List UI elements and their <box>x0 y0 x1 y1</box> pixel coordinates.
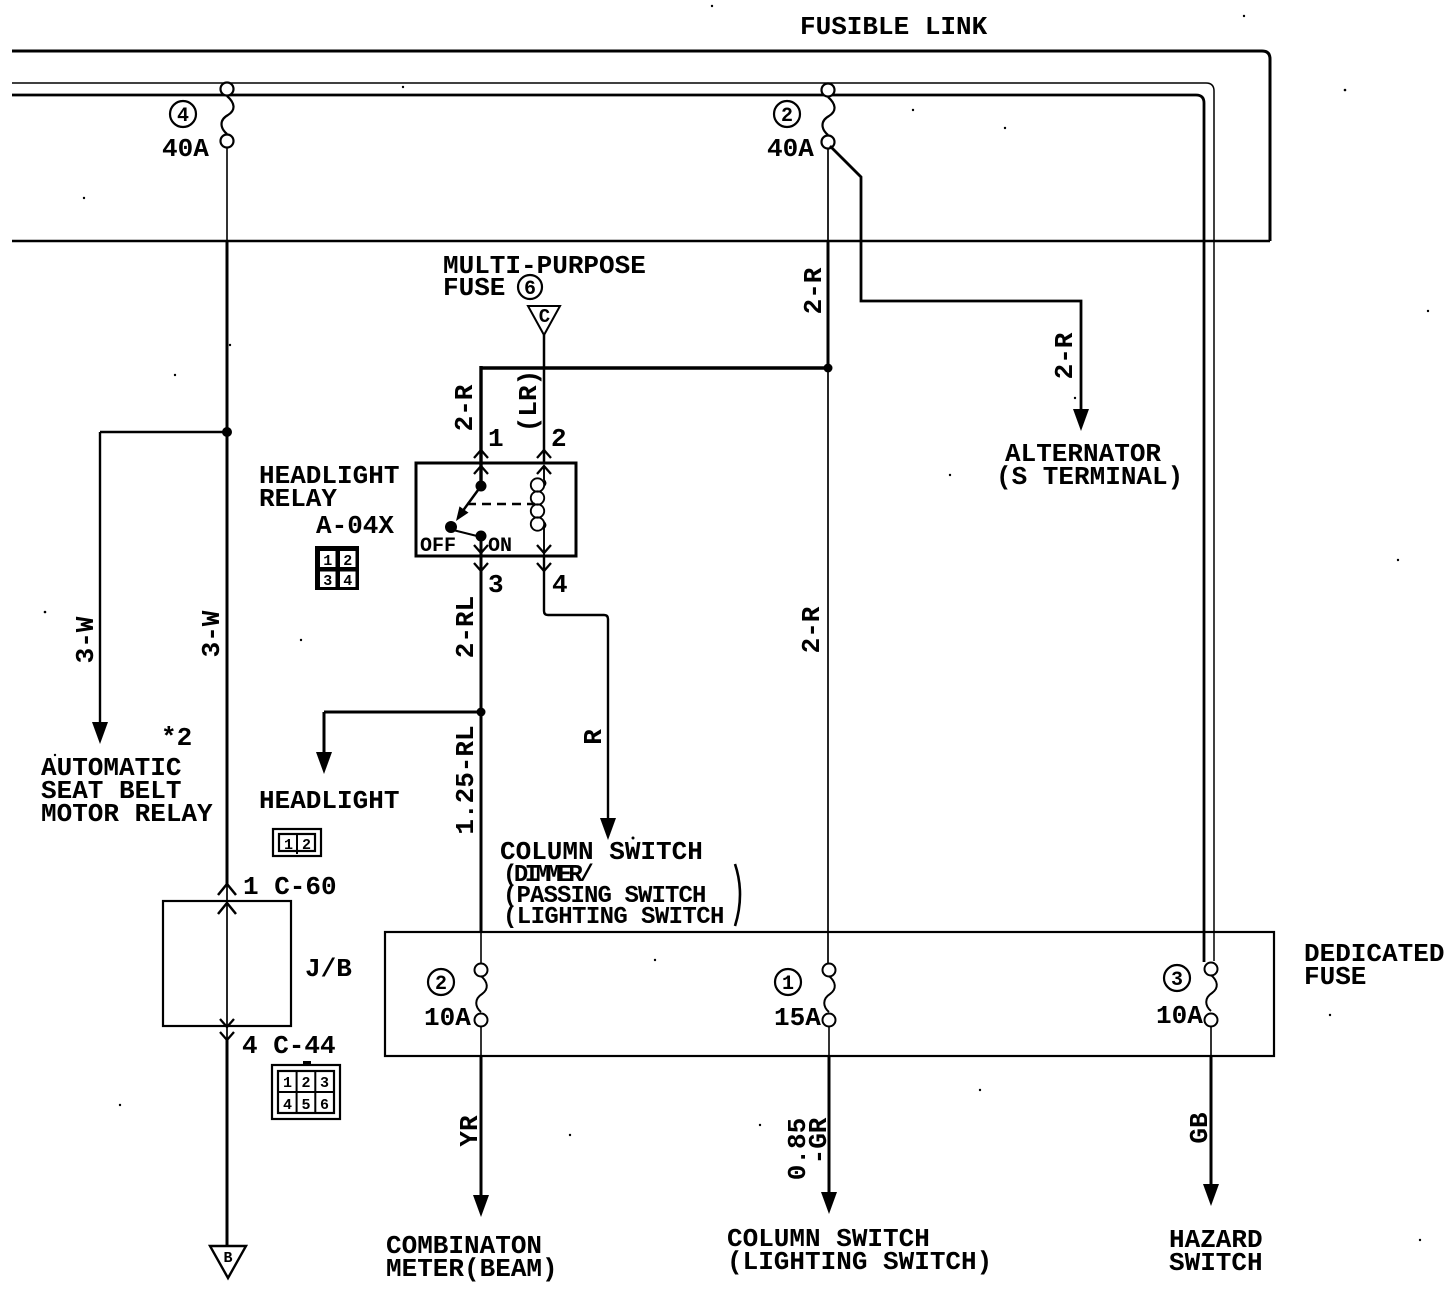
fuse 1 15A <box>823 964 836 1057</box>
connector triangle C <box>528 306 560 335</box>
relay OFF-ON link <box>453 530 477 536</box>
pin4 chevrons <box>537 545 551 571</box>
svg-text:SWITCH: SWITCH <box>1169 1248 1263 1278</box>
arrow to headlight <box>316 752 332 774</box>
svg-text:2-R: 2-R <box>450 384 480 431</box>
svg-text:4: 4 <box>343 573 352 590</box>
svg-text:6: 6 <box>524 278 536 301</box>
svg-text:C: C <box>539 306 550 328</box>
svg-text:4: 4 <box>177 105 189 128</box>
svg-text:2: 2 <box>781 105 793 128</box>
arrow to alternator <box>1073 409 1089 431</box>
wire fusible-link band bottom <box>12 240 1270 242</box>
connector icon A-04X <box>315 546 359 590</box>
svg-text:15A: 15A <box>774 1003 821 1033</box>
node headlight branch junction <box>477 708 486 717</box>
ground terminal B triangle <box>210 1246 246 1278</box>
svg-text:3-W: 3-W <box>71 616 101 663</box>
arrow to column switch lighting <box>821 1192 837 1214</box>
pin2 chevrons <box>537 450 551 474</box>
svg-text:*2: *2 <box>161 723 192 753</box>
arrow to column switch <box>600 818 616 840</box>
svg-text:10A: 10A <box>424 1003 471 1033</box>
svg-text:-GR: -GR <box>804 1117 834 1164</box>
fusible link 2 40A <box>822 84 835 149</box>
svg-text:1: 1 <box>283 1075 292 1092</box>
svg-text:ON: ON <box>488 535 512 558</box>
svg-text:3: 3 <box>320 1075 329 1092</box>
label circled 2 top <box>774 101 800 128</box>
svg-text:1 C-60: 1 C-60 <box>243 872 337 902</box>
svg-text:40A: 40A <box>767 134 814 164</box>
label circled 2 fuse <box>428 969 454 996</box>
label circled 1 fuse <box>775 969 801 996</box>
svg-text:1: 1 <box>488 424 504 454</box>
svg-text:2: 2 <box>551 424 567 454</box>
svg-text:YR: YR <box>455 1115 485 1147</box>
wire 2-R thin vertical from fuse2 <box>827 149 829 242</box>
junction block J/B box <box>163 901 291 1026</box>
wire fusible-link outer box top <box>12 51 1270 241</box>
svg-text:4: 4 <box>552 570 568 600</box>
svg-text:FUSE: FUSE <box>443 273 505 303</box>
relay box A-04X outline <box>416 463 576 556</box>
wire relay feed bus <box>481 366 828 369</box>
svg-text:(LIGHTING SWITCH): (LIGHTING SWITCH) <box>727 1247 992 1277</box>
svg-text:(LR): (LR) <box>514 370 544 432</box>
svg-text:A-04X: A-04X <box>316 511 394 541</box>
wire from C to relay pin2 <box>543 335 546 463</box>
svg-text:B: B <box>223 1250 232 1267</box>
node junction left branch <box>222 427 232 437</box>
svg-text:2-R: 2-R <box>797 606 827 653</box>
svg-text:R: R <box>579 729 609 745</box>
wire fusible-link bus upper (to hazard vertical, thin) <box>12 83 1214 961</box>
svg-text:RELAY: RELAY <box>259 484 337 514</box>
svg-text:FUSIBLE LINK: FUSIBLE LINK <box>800 12 988 42</box>
wire fuse4 output thin <box>226 148 228 242</box>
svg-text:2: 2 <box>301 1075 310 1092</box>
fuse 3 10A <box>1205 963 1218 1057</box>
relay blade arrowhead <box>456 506 469 521</box>
label circled 3 fuse <box>1164 965 1190 992</box>
svg-text:J/B: J/B <box>305 954 352 984</box>
pin3 chevrons <box>474 545 488 571</box>
relay contact pivot <box>476 481 487 492</box>
wire 0.85-GR output <box>828 1056 831 1193</box>
svg-text:2: 2 <box>435 973 447 996</box>
wire headlight branch <box>324 712 481 753</box>
connector icon headlight 1|2 <box>273 829 321 856</box>
svg-text:OFF: OFF <box>420 535 456 558</box>
arrow to seat belt relay <box>92 722 108 744</box>
svg-text:10A: 10A <box>1156 1001 1203 1031</box>
svg-text:2-RL: 2-RL <box>451 596 481 658</box>
svg-text:4 C-44: 4 C-44 <box>242 1031 336 1061</box>
svg-text:1: 1 <box>323 553 332 570</box>
svg-text:MOTOR RELAY: MOTOR RELAY <box>41 799 213 829</box>
wire GB output <box>1210 1056 1213 1185</box>
wire relay pin1 drop <box>479 366 482 486</box>
pin1 chevrons <box>474 450 488 474</box>
wire main left vertical 3-W <box>226 242 229 884</box>
svg-text:2-R: 2-R <box>1050 332 1080 379</box>
fusible link 4 40A <box>221 83 234 148</box>
label big closing paren <box>735 864 740 926</box>
svg-text:2: 2 <box>302 837 311 854</box>
svg-text:FUSE: FUSE <box>1304 962 1366 992</box>
svg-text:1: 1 <box>782 973 794 996</box>
label circled 4 <box>170 101 196 128</box>
svg-text:4: 4 <box>283 1097 292 1114</box>
relay OFF contact <box>445 521 457 533</box>
connector C-44 chevrons <box>220 1019 234 1040</box>
relay blade <box>462 486 481 512</box>
wire fusible-link bus lower (to hazard vertical, thick) <box>12 95 1204 962</box>
svg-text:6: 6 <box>320 1097 329 1114</box>
wire YR output <box>480 1056 483 1196</box>
svg-text:3: 3 <box>323 573 332 590</box>
svg-text:40A: 40A <box>162 134 209 164</box>
wire relay pin4 to column switch <box>544 556 608 819</box>
wire alternator feed diagonal <box>830 146 1081 410</box>
svg-text:(LIGHTING SWITCH: (LIGHTING SWITCH <box>503 904 724 931</box>
svg-text:2: 2 <box>343 553 352 570</box>
svg-text:2-R: 2-R <box>799 267 829 314</box>
svg-text:3: 3 <box>1171 969 1183 992</box>
wire seat belt branch <box>100 432 227 723</box>
svg-text:3: 3 <box>488 570 504 600</box>
dedicated fuse box <box>385 932 1274 1056</box>
svg-text:1: 1 <box>284 837 293 854</box>
svg-text:5: 5 <box>301 1097 310 1114</box>
relay ON contact <box>476 531 487 542</box>
fuse 2 10A <box>475 932 488 1056</box>
connector icon C-44 <box>272 1061 340 1119</box>
svg-text:1.25-RL: 1.25-RL <box>451 725 481 834</box>
connector C-60 chevrons <box>218 884 236 914</box>
arrow to combination meter <box>473 1195 489 1217</box>
arrow to hazard switch <box>1203 1184 1219 1206</box>
svg-text:HEADLIGHT: HEADLIGHT <box>259 786 399 816</box>
relay actuator dashed line <box>467 503 535 506</box>
node bus junction <box>824 364 833 373</box>
wire relay pin3 output 2-RL / 1.25-RL <box>480 536 483 932</box>
relay coil <box>531 466 546 556</box>
svg-text:(S TERMINAL): (S TERMINAL) <box>996 462 1183 492</box>
svg-text:GB: GB <box>1185 1112 1215 1144</box>
svg-text:3-W: 3-W <box>197 610 227 657</box>
svg-text:METER(BEAM): METER(BEAM) <box>386 1254 558 1284</box>
